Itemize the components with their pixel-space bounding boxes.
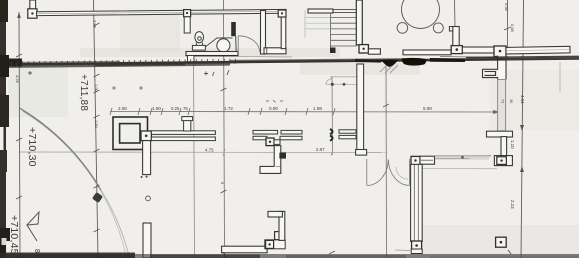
column G with dot at double door right (411, 156, 420, 164)
wire: vertical dim line x=522 full (521, 0, 524, 258)
tick below bottom wall left end (224, 252, 227, 258)
wire: faint step line below closet (237, 56, 292, 59)
wire: horizontal dimension line y=152 (20, 149, 388, 156)
wall: top exterior wall (36, 9, 286, 15)
furniture: chair circle left (397, 23, 408, 34)
svg-text:2.98: 2.98 (93, 20, 98, 29)
wire: faint vertical dim line x=455 top (454, 0, 457, 27)
svg-text:4.34: 4.34 (520, 95, 525, 104)
svg-text:0.25: 0.25 (171, 106, 180, 111)
bottom room: niche rect on wall (275, 232, 282, 240)
wire: faint vertical grid line x=223 full height (224, 0, 225, 258)
column C with dot at closet top right (278, 10, 286, 17)
T-structure: lower-left bar (253, 136, 267, 140)
wall: C-structure top bar (487, 131, 513, 137)
svg-text:1.90: 1.90 (94, 120, 99, 129)
wire: horizontal dimension chain y=111 (110, 108, 500, 115)
column A top-left with wall stub up (28, 0, 37, 18)
wall: closet bottom wall (264, 48, 286, 54)
door arc: bathroom door swing (239, 36, 260, 52)
svg-text:2.87: 2.87 (316, 147, 325, 152)
svg-text:1.90: 1.90 (152, 106, 161, 111)
wall: fork walls right of column K lower prong (151, 137, 215, 141)
bottom room: top stub right (268, 211, 282, 217)
wall: vertical wall below column G (411, 164, 423, 241)
column D stair base with dot (359, 45, 368, 53)
wall: stair right wall vertical (356, 0, 362, 45)
staircase faint lower flight (305, 10, 331, 38)
wire: faint vertical dim line x=19 (19, 12, 20, 258)
svg-text:5.90: 5.90 (423, 106, 432, 111)
wall: short wall right of column D (368, 49, 380, 54)
T-structure: vertical wall down (274, 146, 281, 167)
svg-text:75: 75 (183, 106, 188, 111)
column J isolated with dot bottom right (496, 237, 507, 247)
svg-text:1.98: 1.98 (313, 106, 322, 111)
wall: hollow stub above column E (449, 27, 459, 46)
staircase treads (331, 13, 357, 53)
column E with dot (451, 46, 462, 54)
marker: dots at top of wall gap (141, 176, 143, 178)
fixture: toilet (192, 32, 205, 51)
ticks on vertical dim line x=19 (16, 54, 22, 199)
svg-text:+710,30: +710,30 (26, 127, 38, 167)
column B bathroom pier (184, 10, 191, 33)
wall: long wall to right edge open end (506, 46, 570, 54)
svg-text:1.72: 1.72 (224, 106, 233, 111)
fixture: radiator bars left of wall (339, 130, 356, 139)
junction dark blob on dim line (279, 153, 286, 159)
column I with dot at C-structure base (494, 156, 512, 166)
svg-text:4.75: 4.75 (205, 148, 214, 153)
svg-text:8: 8 (33, 249, 40, 253)
symbol: elevation flag triangle with stem (27, 212, 39, 241)
wall: vertical branch up from fork (182, 117, 193, 131)
scan crease: dark horizontal band (0, 56, 579, 68)
column F with dot (494, 46, 506, 57)
wire: faint vertical dim line x=507 top (507, 0, 509, 47)
svg-text:+711,88: +711,88 (78, 74, 89, 111)
wall: lower segment to bottom edge (143, 223, 151, 258)
wall: stub right of column G (420, 156, 435, 164)
column L with dot (266, 138, 274, 146)
svg-text:0.98: 0.98 (510, 24, 515, 33)
double door: left leaf and arc (367, 159, 388, 186)
wall: below column K going down (143, 141, 151, 175)
scan edge: left dark band (0, 0, 10, 258)
column K with dot right of fireplace (141, 131, 151, 141)
wall: grey band continuing down x~500 (498, 80, 506, 132)
crease ruler ticks below (5, 59, 235, 67)
T-structure: stub right of column L (274, 140, 280, 145)
T-structure: foot going left (260, 166, 281, 173)
double door: right leaf and arc (388, 159, 409, 186)
wire: faint line left of column H (395, 249, 411, 252)
fireplace: outer square (113, 117, 148, 150)
sparse marks below crease (28, 70, 229, 76)
wall: segment between columns E and F (462, 47, 494, 53)
wall: terrace wall segment 403-451 (403, 50, 451, 55)
hatch smudge right of stair wall below crease (380, 64, 398, 73)
wire: faint vertical line x=332 (331, 76, 334, 155)
svg-text:73: 73 (501, 99, 505, 103)
staircase dark base mark (330, 48, 336, 54)
bottom room: horizontal wall left (222, 246, 268, 253)
ticks on vertical dim line x=97 (94, 23, 100, 232)
scan edge: bottom dark band (0, 253, 579, 258)
svg-text:2.90: 2.90 (118, 106, 127, 111)
door arc: small faint swing left of wall (396, 167, 408, 179)
wall: C-structure vertical middle (501, 137, 507, 156)
fixture: bench faint lines with dots mid-plan (326, 77, 358, 86)
T-structure: lower-right bar (280, 136, 302, 140)
tick on x=386 line (383, 104, 389, 107)
wall: fork walls right of column K upper prong (151, 131, 215, 135)
svg-text:5.98: 5.98 (504, 3, 509, 12)
tick below column J (508, 250, 511, 254)
ticks on centerline x=223 (221, 88, 227, 193)
wire: faint vertical x=560 below crease (559, 62, 561, 92)
wire: faint vertical dim line x=97 (94, 0, 99, 258)
T-structure: top bar right segment (281, 130, 302, 134)
wall: stair railing hollow segment (308, 9, 357, 13)
arrow top of x=19 line (17, 12, 21, 18)
wall: bathroom right partition (filled section) (231, 22, 236, 52)
fixture: washbasin counter with round sink (205, 38, 232, 52)
svg-text:1.90: 1.90 (94, 84, 99, 93)
bottom room: column M with dot (265, 240, 285, 249)
wall: S-jog wall below crease at x~500 (483, 56, 507, 80)
big arc: driveway curve double line lower-left (20, 108, 102, 190)
wall: closet right vertical wall (281, 17, 286, 49)
bottom room: vertical wall up (279, 211, 285, 240)
wire: thin double line window to the right (435, 156, 492, 159)
svg-text:0.90: 0.90 (269, 106, 278, 111)
furniture: chair circle right (433, 23, 443, 33)
wire: step edge line below terrace walls (440, 57, 506, 58)
wall: vertical double wall below crease x=357-364 (356, 64, 367, 155)
marks: dark bracket pair on line x=332 (330, 129, 333, 141)
tiny cross marks mid plan (112, 86, 283, 103)
wall: stub below bathroom going to crease (188, 56, 195, 63)
svg-text:2.23: 2.23 (510, 200, 515, 209)
wire: faint vertical line x=386 door centerline (385, 62, 388, 258)
column H with dot at bottom of wall (411, 241, 422, 254)
furniture: round table (402, 0, 440, 29)
arrowheads on x=522 line (520, 125, 524, 172)
fireplace: inner square (120, 124, 140, 143)
tick on x=332 line (329, 251, 335, 254)
T-structure: top bar left segment (253, 130, 278, 134)
svg-text:1.10: 1.10 (510, 140, 515, 149)
ticks and text on x=507 line (504, 27, 511, 30)
marker: small circle on wall line (146, 196, 151, 201)
wire: faint vertical dim line x=194 (194, 55, 195, 258)
svg-text:30: 30 (509, 99, 513, 103)
wall: bathroom bottom wall (186, 52, 238, 56)
svg-text:4.26: 4.26 (15, 75, 20, 84)
wall: closet left vertical wall (261, 11, 266, 55)
